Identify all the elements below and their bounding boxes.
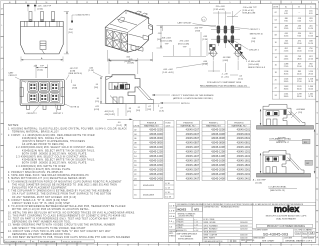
svg-text:04: 04 [275,19,277,21]
location right dim [314,129,315,173]
svg-text:[3.0]: [3.0] [136,110,140,112]
svg-text:[1.14]: [1.14] [89,70,95,72]
svg-text:13. WHEN ORDERING PARTS WITH V: 13. WHEN ORDERING PARTS WITH VOIDED CIRC… [8,224,115,227]
svg-text:15.65: 15.65 [284,36,289,38]
svg-text:15: 15 [25,244,27,246]
svg-text:(SEE NOTE 6): (SEE NOTE 6) [69,73,83,75]
svg-text:.025 .045 TYP: .025 .045 TYP [38,5,52,7]
svg-text:33.00: 33.00 [297,96,302,98]
svg-text:12: 12 [275,50,277,52]
svg-text:30.65: 30.65 [284,73,289,75]
svg-text:2020-01-10 08:31:36: 2020-01-10 08:31:36 [63,242,83,244]
svg-text:.065 +.002: .065 +.002 [163,69,174,71]
svg-text:[10.29]: [10.29] [128,63,135,65]
terminal cell r1c1 [28,82,38,92]
svg-text:TYP: TYP [183,46,188,48]
svg-text:SEE NOTE #7: SEE NOTE #7 [276,142,290,144]
svg-text:[3.00]: [3.00] [38,69,44,71]
svg-text:43045-1401: 43045-1401 [237,154,251,158]
svg-text:[3.00]: [3.00] [72,88,78,90]
svg-text:[1.52]: [1.52] [203,64,209,66]
revision / approvals column [203,203,255,244]
svg-text:THE HOLE DIAMETER SHOULD BE IN: THE HOLE DIAMETER SHOULD BE INCREASED TO… [12,183,117,186]
svg-text:[10.16]: [10.16] [278,141,285,143]
svg-text:6.00: 6.00 [297,28,301,30]
svg-text:CIRCUIT 1: CIRCUIT 1 [250,29,261,31]
front view pin 1 [29,12,32,22]
circuit Y note [152,94,214,105]
svg-text:31.20: 31.20 [308,81,313,83]
svg-text:12: 12 [86,244,88,246]
datum flag upper [303,139,311,144]
tolerance column [175,203,202,243]
pcb clip hole right [234,50,244,61]
pcb mid label [223,57,232,62]
svg-text:16: 16 [9,244,11,246]
svg-text:43045-1207: 43045-1207 [186,150,200,154]
svg-text:[2.36]: [2.36] [203,39,209,41]
svg-text:5. MATES WITH MICRO-FIT (3.0): 5. MATES WITH MICRO-FIT (3.0) RECEPTACLE… [8,177,86,180]
pcb lower-left label [163,63,209,74]
svg-text:43045-0207: 43045-0207 [186,127,200,131]
svg-text:NTS: NTS [194,208,199,211]
svg-text:43045-0208: 43045-0208 [211,127,225,131]
svg-text:43045-1800: 43045-1800 [149,163,163,167]
svg-text:43045-0600: 43045-0600 [149,136,163,140]
svg-text:43045-1407: 43045-1407 [186,154,200,158]
svg-text:43045-0407: 43045-0407 [186,132,200,136]
svg-text:—: — [298,12,300,14]
svg-text:F: F [317,134,318,136]
svg-text:SHEET NUMBER: SHEET NUMBER [303,238,314,240]
svg-text:16: 16 [9,2,11,4]
solder tails bottom view [27,105,61,109]
location connector profile [263,150,304,173]
svg-text:CIRCUIT 2: CIRCUIT 2 [249,49,260,51]
pcb left dim block [160,26,216,57]
svg-text:18: 18 [275,72,277,74]
svg-text:VOID: VOID [165,123,171,125]
svg-text:43045-1201: 43045-1201 [237,150,251,154]
location caption [269,186,298,192]
svg-text:43045-1400: 43045-1400 [149,154,163,158]
svg-text:43045-0401: 43045-0401 [237,132,251,136]
svg-text:.000050 [0.00127] MIN. NICKEL: .000050 [0.00127] MIN. NICKEL PLATE. [22,168,71,171]
svg-text:43045-1008: 43045-1008 [211,145,225,149]
svg-text:20: 20 [275,80,277,82]
svg-text:CURRENT REV DESC:: CURRENT REV DESC: [204,207,220,209]
side view left label [89,68,104,78]
svg-text:.400 REF: .400 REF [277,138,286,140]
pcb clip hole left [209,50,219,61]
location pcb bar [257,173,311,177]
svg-text:18.65: 18.65 [284,43,289,45]
svg-text:1. HOUSING MATERIAL: GLASS FIL: 1. HOUSING MATERIAL: GLASS FILLED LIQUID… [8,128,127,131]
front view latch [40,41,46,54]
svg-text:[4.5]: [4.5] [127,111,131,113]
svg-text:43045-1601: 43045-1601 [237,159,251,163]
svg-text:3.00: 3.00 [297,21,301,23]
svg-text:(SEE NOTE #8): (SEE NOTE #8) [270,190,285,192]
svg-text:4, 10,: 4, 10, [165,192,171,194]
svg-text:43045-1200: 43045-1200 [149,150,163,154]
finish row separators [133,131,251,176]
svg-text:36.65: 36.65 [284,89,289,91]
svg-text:43045-0607: 43045-0607 [186,136,200,140]
svg-text:SERIES NUMBER: SERIES NUMBER [253,238,265,240]
svg-text:M: M [114,85,119,91]
svg-text:AND SPECIFY THE CIRCUITS TO BE: AND SPECIFY THE CIRCUITS TO BE VOIDED, S… [12,227,86,230]
svg-text:[3.6]: [3.6] [94,87,98,89]
iso body outline [105,10,152,52]
svg-text:1: 1 [318,244,319,246]
zone ticks left [0,15,3,233]
svg-text:L: L [1,25,2,27]
coplanarity pcb bar [257,126,314,130]
svg-text:.130 ±.004 TYP: .130 ±.004 TYP [243,7,258,9]
svg-text:13: 13 [66,244,68,246]
iso face edges [105,10,149,52]
svg-text:9.65: 9.65 [284,21,288,23]
svg-text:DEPENDING ON PART NUMBER AND/O: DEPENDING ON PART NUMBER AND/OR TOOL [12,221,71,224]
svg-text:NOTE 10: NOTE 10 [71,107,80,109]
svg-text:CIRCUIT 2: CIRCUIT 2 [27,113,38,115]
svg-text:2: 2 [291,2,292,4]
svg-text:TERMINAL MATERIAL: BRASS ALLOY: TERMINAL MATERIAL: BRASS ALLOY [12,131,59,134]
svg-text:SEE NOTES 6 & 9: SEE NOTES 6 & 9 [248,67,266,69]
notice strip [175,203,315,206]
third angle projection row [227,239,229,242]
svg-text:14: 14 [275,57,277,59]
svg-text:43045-1007: 43045-1007 [186,145,200,149]
side view top dim [109,58,138,74]
svg-text:43045-1608: 43045-1608 [211,159,225,163]
svg-text:8: 8 [168,2,169,4]
terminal cell r2c3 [50,92,60,102]
svg-text:GENERAL MARKET: GENERAL MARKET [285,240,306,243]
svg-text:43045-0601: 43045-0601 [237,136,251,140]
svg-text:PSD: PSD [296,233,301,235]
svg-text:43045-0800: 43045-0800 [149,141,163,145]
note 10 label [65,104,80,109]
svg-text:L: L [317,25,318,27]
svg-text:27.65: 27.65 [284,66,289,68]
svg-text:2.2 43045(0200-0224) MIN. SELE: 2.2 43045(0200-0224) MIN. SELECT GOLD IN… [16,146,95,149]
svg-text:43045-0400: 43045-0400 [149,132,163,136]
terminal cell r2c1 [28,92,38,102]
svg-text:43045-1208: 43045-1208 [211,150,225,154]
svg-text:1.6 ⊕: 1.6 ⊕ [169,210,174,213]
svg-text:DUAL ROW HEADER: DUAL ROW HEADER [276,217,296,220]
pcb right labels [228,28,266,70]
finish table headers [133,122,246,128]
svg-text:5: 5 [230,2,231,4]
svg-text:11: 11 [107,2,109,4]
svg-text:10: 10 [127,2,129,4]
svg-text:6: 6 [209,2,210,4]
terminal cell r1c3 [50,82,60,92]
svg-text:43045-0608: 43045-0608 [211,136,225,140]
svg-text:6.65: 6.65 [284,13,288,15]
svg-text:5: 5 [230,244,231,246]
svg-text:[9.0]: [9.0] [69,32,73,34]
svg-text:1: 1 [318,2,319,4]
svg-text:BOTH OVER .000050 [0.00127] MI: BOTH OVER .000050 [0.00127] MIN. NICKEL … [22,152,88,155]
svg-text:[1.0]: [1.0] [239,79,243,81]
iso right dim [157,26,163,49]
svg-text:SEE NOTE 10: SEE NOTE 10 [250,33,264,35]
svg-text:9.00: 9.00 [297,36,301,38]
svg-text:A + .400 REF: A + .400 REF [253,178,267,181]
svg-text:SD-43045-003: SD-43045-003 [263,231,288,236]
finish table frame [133,120,251,180]
svg-text:OF ANY TERMINAL MUST NOT EXCEE: OF ANY TERMINAL MUST NOT EXCEED .005 [0.… [12,196,76,199]
svg-text:43045-0808: 43045-0808 [211,141,225,145]
svg-text:8. CIRCUIT SIZES 2-6: "B" IS .: 8. CIRCUIT SIZES 2-6: "B" IS .0035 [0.09… [8,200,68,202]
svg-text:34.20: 34.20 [308,89,313,91]
svg-text:43045-2008: 43045-2008 [211,167,225,171]
svg-text:13: 13 [66,2,68,4]
svg-text:30.00: 30.00 [297,89,302,91]
clip slot right [61,88,64,97]
svg-text:CKTS: CKTS [273,7,279,9]
svg-text:CIRCUIT 'Y' IDENTIFIED ON THIS: CIRCUIT 'Y' IDENTIFIED ON THIS SURFACE [172,94,215,97]
terminal cell r1c2 [39,82,49,92]
iso bottom dim [108,50,153,63]
dim line A [21,57,63,62]
svg-text:[1 +.05]: [1 +.05] [222,77,229,79]
svg-text:43045-0209: 43045-0209 [143,185,155,187]
svg-text:.401 [10.2]: .401 [10.2] [104,111,114,113]
svg-text:DOCUMENT STATUS: DOCUMENT STATUS [5,241,26,244]
circuit 2 label [27,104,41,116]
svg-text:6. TO MINIMIZE INSERTION FORCE: 6. TO MINIMIZE INSERTION FORCE OF MOUNTI… [8,180,122,183]
svg-text:43045-1801: 43045-1801 [237,163,251,167]
svg-text:12.00: 12.00 [297,43,302,45]
svg-text:43045(0224) MIN. SELECT MATTE: 43045(0224) MIN. SELECT MATTE TIN ON SOL… [22,149,95,152]
svg-text:08: 08 [275,34,277,36]
svg-text:F: F [1,134,2,136]
front view dim labels top [27,5,52,12]
svg-text:12.65: 12.65 [284,28,289,30]
circuit 1 label [53,104,64,116]
iso right side tabs [129,11,153,51]
svg-text:LOCATION DETAIL: LOCATION DETAIL [269,186,288,189]
svg-text:9: 9 [148,244,149,246]
svg-text:1 OF 3: 1 OF 3 [306,241,313,243]
svg-text:[1.8]: [1.8] [160,111,164,113]
svg-text:PCB LAYOUT COMPONENT SIDE: PCB LAYOUT COMPONENT SIDE [207,81,242,84]
svg-text:18.00: 18.00 [297,58,302,60]
svg-text:10.20: 10.20 [308,28,313,30]
svg-text:[3.30 ±0.10]: [3.30 ±0.10] [243,10,254,12]
svg-text:8: 8 [168,244,169,246]
svg-text:[0.64]: [0.64] [38,9,44,11]
svg-text:02: 02 [275,12,277,14]
svg-text:NOTES:: NOTES: [8,123,19,127]
dim line B [33,65,48,79]
svg-text:[7.87]: [7.87] [195,30,201,32]
product customer drawing band [252,224,315,228]
svg-text:TYP: TYP [40,66,45,68]
svg-text:43045(0401) MIN. NICKEL PLATE.: 43045(0401) MIN. NICKEL PLATE. [22,137,64,140]
svg-text:12: 12 [86,2,88,4]
iso top latch bump [118,17,125,23]
finish table rows [134,127,251,180]
svg-text:E: E [1,156,2,158]
svg-text:43045-2200: 43045-2200 [149,172,163,176]
svg-text:4. TAPE AND REEL PACK: SEE MOL: 4. TAPE AND REEL PACK: SEE MOLEX DRAWING… [8,174,89,177]
svg-text:3: 3 [270,2,271,4]
bottom row: series / market / sheet [253,237,314,243]
coplanarity labels [291,108,306,118]
svg-text:7. THE COPLANARITY DIMENSION I: 7. THE COPLANARITY DIMENSION IS ESTABLIS… [8,190,112,193]
svg-text:7: 7 [189,2,190,4]
svg-text:06: 06 [275,27,277,29]
svg-text:24: 24 [275,95,277,97]
svg-text:B: B [1,221,2,223]
svg-text:43045-2007: 43045-2007 [186,167,200,171]
svg-text:SEE CHART: SEE CHART [262,240,275,243]
svg-text:15.00: 15.00 [297,51,302,53]
left symbol column [169,203,177,243]
svg-text:.1 +.08: .1 +.08 [221,74,228,76]
coplanarity caption [269,138,303,145]
svg-text:43045-2201: 43045-2201 [237,172,251,176]
svg-text:43045-2401: 43045-2401 [237,176,251,180]
note 6 label [71,15,90,23]
svg-text:.68 REF: .68 REF [223,57,232,59]
pcb top dim labels [213,6,257,25]
svg-text:4.1 ⊕: 4.1 ⊕ [169,204,174,207]
svg-text:[10.16]: [10.16] [256,182,263,184]
svg-text:NOTE 10: NOTE 10 [181,103,190,105]
svg-text:CIRCUIT 1: CIRCUIT 1 [53,113,64,115]
svg-text:7: 7 [189,244,190,246]
pcb pads row 1 [217,26,234,34]
svg-text:CIRCUIT SIZES 8-24: "B" IS .06: CIRCUIT SIZES 8-24: "B" IS .0601 [0.09] … [12,203,70,205]
svg-text:[.10]: [.10] [298,112,302,114]
svg-text:14. CIRCUIT SIZE 2 HAS TWO CLI: 14. CIRCUIT SIZE 2 HAS TWO CLIPS AND TAP… [8,230,111,233]
svg-text:[9.53 ±0.08]: [9.53 ±0.08] [178,43,189,45]
svg-text:(FINISH IS BRIGHT IN APPEARANC: (FINISH IS BRIGHT IN APPEARANCE, THICKNE… [22,140,85,143]
svg-text:2 Ø .064 ±.003: 2 Ø .064 ±.003 [246,61,261,63]
svg-text:43045-2001: 43045-2001 [237,167,251,171]
svg-text:1.6 △: 1.6 △ [169,220,174,223]
svg-text:INCHES: INCHES [177,208,186,211]
svg-text:EVALUATED FOR PLACEMENT EQUIPM: EVALUATED FOR PLACEMENT EQUIPMENT. [12,187,67,190]
svg-text:3: 3 [270,244,271,246]
location dark mold marks [267,158,270,161]
svg-text:24.00: 24.00 [297,73,302,75]
svg-text:43045-2407: 43045-2407 [186,176,200,180]
svg-text:21.00: 21.00 [297,66,302,68]
svg-text:7.20: 7.20 [309,21,313,23]
svg-text:G8: G8 [310,231,314,235]
svg-text:TYP: TYP [165,43,170,45]
svg-text:[6]: [6] [124,125,127,127]
svg-text:[10.2]: [10.2] [117,125,123,127]
svg-text:(APPROX. LOCATION SHOWN FOR RE: (APPROX. LOCATION SHOWN FOR REF.) [173,97,213,100]
svg-text:10: 10 [275,42,277,44]
svg-text:(UNLESS SPECIFIED): (UNLESS SPECIFIED) [179,216,195,218]
terminal cell r2c2 [39,92,49,102]
svg-text:43045-0801: 43045-0801 [237,141,251,145]
title text [266,215,307,221]
bottom view body [20,80,64,106]
svg-text:[2.8]: [2.8] [251,41,255,43]
svg-text:14: 14 [46,244,48,246]
finish table extra rows [133,181,174,199]
svg-text:AS APPLIED PRIOR TO REFLOW): AS APPLIED PRIOR TO REFLOW) [22,143,64,146]
side view body [106,75,154,104]
svg-text:4.3 ⊕: 4.3 ⊕ [169,215,174,218]
right small dim labels [66,68,82,90]
svg-text:43045-1000: 43045-1000 [149,145,163,149]
coplanarity left dim [260,109,261,125]
svg-text:[2.92 ±0.08]: [2.92 ±0.08] [214,9,225,11]
svg-text:2.4 43045(0624) MIN. MATTE TIN: 2.4 43045(0624) MIN. MATTE TIN OVER [16,165,66,168]
svg-text:43045-1607: 43045-1607 [186,159,200,163]
svg-text:43045-1600: 43045-1600 [149,159,163,163]
svg-text:43045(0824) MIN. SELECT MATTE: 43045(0824) MIN. SELECT MATTE TIN ON SOL… [22,159,95,162]
svg-text:12. TEST ON PART IS FOR REFERE: 12. TEST ON PART IS FOR REFERENCE ONLY. … [8,218,117,221]
svg-text:.458 ±.003: .458 ±.003 [161,37,172,39]
svg-text:16: 16 [275,65,277,67]
document number row [252,229,315,237]
svg-text:.310 TYP: .310 TYP [194,28,203,30]
svg-text:10. METAL TAB MAY BE FLUSH WIT: 10. METAL TAB MAY BE FLUSH WITH PCB. NO … [8,211,135,214]
svg-text:11. THIS PART CONFORMS TO CLAS: 11. THIS PART CONFORMS TO CLASS B REQUIR… [8,214,126,217]
svg-text:43045-2208: 43045-2208 [211,172,225,176]
svg-text:.430 [10.92]: .430 [10.92] [104,114,115,116]
ckts table data [275,11,313,99]
svg-text:.005 MAX: .005 MAX [296,108,306,111]
svg-text:43045-0807: 43045-0807 [186,141,200,145]
pcb bottom dims [203,61,243,81]
svg-text:6: 6 [209,244,210,246]
svg-text:43045-0201: 43045-0201 [237,127,251,131]
front view right dim [64,12,74,54]
svg-text:LAST CIRCUIT: LAST CIRCUIT [178,21,193,24]
svg-text:43045-2207: 43045-2207 [186,172,200,176]
svg-text:.115 ±.003: .115 ±.003 [215,6,225,8]
svg-text:39.65: 39.65 [284,96,289,98]
pcb square pad left [210,44,216,49]
svg-text:1: 1 [311,2,312,4]
svg-text:10: 10 [127,244,129,246]
svg-text:2. FINISH: 2.1 43045(0200-021: 2. FINISH: 2.1 43045(0200-0219) MIN. REF… [8,134,95,137]
svg-text:9. TO AVOID INTERFERENCE BETWE: 9. TO AVOID INTERFERENCE BETWEEN RECEPTA… [8,205,126,208]
title block outline [169,203,316,243]
svg-text:22.20: 22.20 [308,58,313,60]
svg-text:9: 9 [148,2,149,4]
svg-text:[1.8]: [1.8] [147,109,151,111]
last circuit label pcb [178,17,217,27]
side view bottom dims [94,104,160,116]
svg-text:B: B [317,221,318,223]
svg-text:CUSTOMER: CUSTOMER [284,238,292,240]
svg-text:27.00: 27.00 [297,81,302,83]
svg-text:4: 4 [250,244,251,246]
svg-text:molex: molex [274,204,300,214]
svg-text:15. FOR BEST RETENTION TO PCB,: 15. FOR BEST RETENTION TO PCB, HOLES FOR… [8,236,130,239]
svg-text:14: 14 [46,2,48,4]
datum flag lower [305,160,313,165]
iso front face holes grid [107,30,128,51]
svg-text:0.0600 NOTE 6: 0.0600 NOTE 6 [76,15,91,17]
svg-text:13, 19: 13, 19 [165,196,172,198]
